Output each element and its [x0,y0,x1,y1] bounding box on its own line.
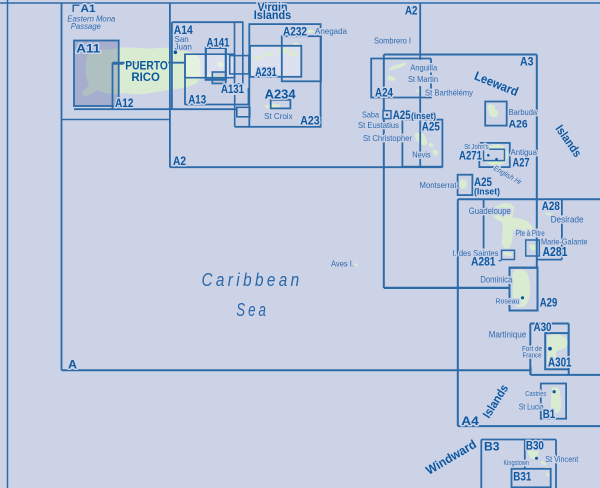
leader PUERTO RICO [113,63,124,65]
svg-text:Guadeloupe: Guadeloupe [469,206,511,216]
svg-text:A28: A28 [542,199,560,213]
svg-text:Roseau: Roseau [496,296,520,305]
svg-text:A4: A4 [461,414,479,428]
rect A bottom edge [62,369,531,371]
rect B1 [541,384,566,419]
islet St Eustatius [400,130,403,133]
map left border [7,0,9,488]
rect A232 [282,36,321,81]
rect A23 bottom extension [235,126,250,128]
svg-text:A131: A131 [221,84,244,96]
svg-text:Anegada: Anegada [315,26,347,36]
dot Fort de France [548,347,552,351]
islet Anegada [306,30,314,33]
island St Lucia [551,387,561,413]
islet in B31 [546,473,549,477]
rect A1 bottom edge [62,119,170,121]
rect west St Croix left edge [234,95,236,127]
dot San Juan [174,51,178,55]
svg-text:A30: A30 [534,320,552,334]
rect A14 left edge [171,22,173,109]
island Antigua [484,145,508,166]
svg-text:Nevis: Nevis [412,149,431,159]
rect A30 top edge [530,323,568,325]
rect B31 [512,469,551,488]
rect Vieques sound [230,56,249,74]
islet Marie-Galante [529,244,536,250]
svg-text:Montserrat: Montserrat [420,180,458,190]
rect A30 right edge [568,324,570,375]
rect A14 A12 bottom edge [74,108,237,110]
island Nevis [433,150,438,156]
svg-text:A2: A2 [405,5,418,17]
islets Les Saintes [503,252,512,257]
svg-text:A281: A281 [543,244,568,259]
svg-text:A281: A281 [471,256,496,268]
svg-text:B3: B3 [484,439,500,453]
rect A28 A4 left edge [457,199,459,426]
island Dominica [512,270,527,306]
rect A30 bottom edge [531,374,600,376]
svg-text:A27: A27 [513,157,530,169]
svg-text:A29: A29 [540,296,558,310]
svg-text:St Christopher: St Christopher [363,133,412,143]
svg-text:Castries: Castries [525,389,546,398]
map top border [0,2,600,4]
svg-text:Passage: Passage [71,22,101,31]
rect A25 [402,120,442,167]
rect A13 fill border [185,54,235,77]
rect A30 left notch [530,367,532,375]
rect B3 left edge [480,440,482,488]
dot A271 west [487,154,490,157]
rect A27 [479,143,510,167]
svg-text:A271: A271 [459,150,482,162]
svg-text:A141: A141 [207,37,230,49]
svg-text:A24: A24 [375,85,393,99]
islet St Barthelemy [416,90,420,93]
islet Aves [354,263,357,266]
svg-text:A2: A2 [173,156,186,168]
rect St Thomas narrow [235,22,243,84]
islands Virgin Islands chain [252,56,263,60]
svg-text:St Lucia: St Lucia [519,401,544,411]
svg-text:Desirade: Desirade [551,214,584,224]
svg-text:Dominica: Dominica [480,274,512,284]
rect A24 [371,59,431,98]
rect Montserrat [458,175,473,195]
rect A13 bottom edge [185,104,248,106]
rect A11 [74,41,119,107]
rect B30 right edge [555,440,557,488]
svg-text:St Martin: St Martin [408,74,438,84]
island Culebra [217,62,223,67]
svg-text:A13: A13 [188,94,206,106]
rect A29 Dominica [510,268,538,311]
chart fill small rect east PR [212,72,226,84]
rect A24 right edge dashed [430,59,432,63]
svg-text:Sombrero I: Sombrero I [374,35,411,45]
Saba inset box [383,111,391,119]
rect A28 inner vertical [483,199,485,249]
islets Grenadines [541,461,546,466]
rect A281 right edge upper [561,199,563,215]
svg-text:A232: A232 [283,26,307,38]
svg-text:A1: A1 [81,3,96,15]
svg-text:A234: A234 [265,87,296,101]
chart fill A11 overlay [74,41,119,107]
svg-text:Caribbean: Caribbean [202,270,303,290]
rect A231 [250,46,301,77]
rect A26 [485,102,507,126]
rect A234 inset [271,100,291,109]
dot Castries [553,390,556,393]
svg-text:St Eustatius: St Eustatius [358,120,399,130]
islet Desirade [545,213,552,216]
svg-text:France: France [523,351,542,360]
svg-text:Martinique: Martinique [489,330,527,340]
rect A12 left edge [112,63,114,109]
rect Marie-Galante inset [526,240,540,256]
rect A left edge [61,3,63,370]
svg-text:Aves I.: Aves I. [331,259,354,269]
rect west St Croix inset [237,107,250,117]
dot A271 east [495,158,498,161]
rect A271 inset [484,149,505,160]
leader A281 [499,260,502,262]
island Guadeloupe [491,203,535,248]
svg-text:Sea: Sea [236,300,268,320]
rect Les Saintes inset [502,250,515,259]
svg-text:Saba: Saba [362,110,379,120]
rect A12 top edge [113,62,186,64]
rect A2 right edge lower [419,86,421,167]
svg-text:St Vincent: St Vincent [545,454,579,464]
rect A3 top edge [384,54,537,56]
svg-text:A12: A12 [115,98,134,110]
island Montserrat [459,179,467,189]
svg-text:Kingstown: Kingstown [504,458,530,467]
island St Kitts [415,133,427,146]
svg-text:B30: B30 [526,439,544,453]
rect A281 right edge lower [561,224,563,260]
rect A3 right edge [536,55,538,311]
islet St Martin [387,76,396,81]
chart fill A231 [250,46,301,77]
rect B3 B30 top edge [481,439,556,441]
rect Culebra small [212,72,226,84]
rect A3 left edge [383,55,385,288]
rect A301 [545,333,568,369]
svg-text:A11: A11 [76,41,100,55]
svg-text:RICO: RICO [131,70,160,84]
island Vieques [204,74,227,81]
Saba dot [386,114,388,116]
rect A3 bottom edge [384,287,510,289]
islet Saba [383,110,386,113]
island St Vincent [528,444,539,459]
svg-text:A3: A3 [520,55,534,69]
island Barbuda [487,104,498,117]
rect A2 right edge upper [419,3,421,60]
dot Kingstown [535,457,538,460]
svg-text:Barbuda: Barbuda [509,107,538,117]
svg-text:A23: A23 [300,115,320,127]
rect A30 left edge [529,324,531,375]
svg-text:A: A [68,357,77,371]
rect A141 [206,48,226,80]
rect A281 bottom edge [537,259,562,261]
svg-text:A26: A26 [509,118,528,130]
rect B30 left edge [524,440,526,488]
rect A29 stroke [510,268,538,311]
rect A14 top edge [172,21,243,23]
svg-text:Juan: Juan [175,43,192,52]
rect A2 bottom edge [170,166,442,168]
svg-text:A301: A301 [548,354,572,369]
rect A23 [249,24,320,127]
svg-text:B31: B31 [513,470,531,484]
svg-text:Antigua: Antigua [511,147,538,157]
svg-text:A231: A231 [255,67,277,79]
rect A13 right edge [247,88,249,105]
island Dominica redrawn [512,269,530,307]
svg-text:Anguilla: Anguilla [410,63,437,73]
island St Croix [264,104,281,110]
svg-text:St Croix: St Croix [264,111,293,121]
rect A1 corner tick [73,5,79,12]
svg-text:St Barthélémy: St Barthélémy [425,88,474,98]
island Puerto Rico [82,47,201,95]
islet Anguilla [389,63,406,70]
chart fill A13 inner [185,54,235,77]
svg-text:Islands: Islands [254,10,292,22]
rect A13 left edge [184,54,186,105]
dot Roseau [521,296,524,299]
island Martinique [547,334,568,368]
svg-text:A25: A25 [422,119,440,133]
svg-text:B1: B1 [543,407,556,421]
rect A28 top edge [458,198,600,200]
rect A4 bottom edge [458,425,600,427]
rect A2 left edge [169,3,171,167]
svg-text:(Inset): (Inset) [474,186,500,197]
